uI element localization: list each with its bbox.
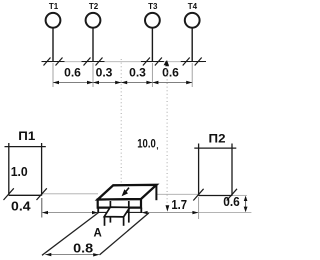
vertical 0.6 dimension right	[245, 197, 247, 211]
top dimension line	[53, 82, 192, 84]
svg-text:0.4: 0.4	[11, 200, 31, 214]
svg-text:,: ,	[156, 140, 158, 150]
arrow 1.7 left	[142, 211, 148, 214]
slab right extension	[140, 208, 142, 213]
tower T3	[141, 13, 164, 66]
extension line T2	[92, 63, 94, 87]
bottom dimension line 0.4	[42, 212, 98, 214]
tower T2	[82, 13, 105, 66]
P2 corner slash right	[227, 189, 237, 201]
extension below P2 left edge	[198, 197, 200, 219]
marker triangle on baseline	[164, 60, 169, 65]
extension below P1 right edge	[41, 198, 43, 218]
slab source box front face	[98, 199, 141, 208]
table front leg left	[104, 217, 106, 226]
arrow 0.4 right	[92, 211, 98, 214]
arrow 0.8 left	[45, 253, 51, 256]
center axis dotted line	[120, 59, 122, 185]
svg-text:T4: T4	[188, 2, 198, 11]
extension line T3	[151, 63, 153, 87]
svg-text:T2: T2	[89, 2, 99, 11]
bottom dim line mid black	[98, 211, 141, 213]
tower T4	[181, 13, 206, 66]
vertical 10.0 dimension dotted line	[166, 65, 168, 205]
arrow down 10.0	[166, 205, 170, 211]
svg-text:0.8: 0.8	[73, 240, 93, 255]
svg-text:T3: T3	[148, 2, 158, 11]
table front leg right	[123, 217, 125, 226]
svg-text:П1: П1	[18, 129, 35, 143]
slab right back edge	[155, 185, 157, 200]
diagonal extension left (0.8)	[42, 213, 98, 256]
arrow glyph on slab top	[122, 189, 128, 196]
0.8 dimension line	[45, 254, 99, 256]
tower T1	[42, 13, 65, 66]
svg-text:П2: П2	[209, 131, 226, 145]
svg-text:T1: T1	[49, 2, 59, 11]
extension line T1	[52, 63, 54, 87]
bottom dimension line 1.7	[141, 212, 198, 214]
arrowheads top dimension	[53, 81, 192, 84]
P1 corner slash left	[4, 188, 14, 200]
slab top face	[98, 185, 157, 200]
arrow up 10.0	[165, 60, 169, 66]
ground line gray right	[157, 193, 199, 195]
svg-text:A: A	[94, 228, 102, 240]
ground line gray far right	[232, 194, 247, 196]
svg-text:0.3: 0.3	[129, 66, 146, 80]
table top face	[104, 207, 130, 217]
arrow 0.8 right	[93, 253, 99, 256]
baseline gray connector	[42, 61, 204, 63]
svg-text:10.0: 10.0	[137, 137, 156, 151]
bottom dimension line right	[199, 211, 252, 213]
box P2	[194, 144, 236, 196]
svg-text:0.6: 0.6	[64, 66, 81, 80]
table back leg left	[109, 201, 111, 223]
svg-text:0.6: 0.6	[162, 66, 179, 80]
table back leg right	[128, 201, 130, 223]
ground line gray left	[42, 193, 98, 195]
svg-text:1.7: 1.7	[171, 198, 187, 212]
diagonal extension right (0.8)	[100, 213, 149, 255]
extension line T4	[191, 63, 193, 87]
svg-text:0.6: 0.6	[223, 195, 240, 209]
arrow 0.4 left	[42, 211, 48, 214]
arrow 1.7 right	[192, 211, 198, 214]
svg-text:1.0: 1.0	[11, 165, 28, 179]
svg-text:0.3: 0.3	[96, 66, 113, 80]
P2 corner slash left	[193, 189, 203, 201]
slab left extension	[97, 208, 99, 213]
P1 corner slash right	[37, 188, 47, 200]
box P1	[5, 143, 46, 196]
